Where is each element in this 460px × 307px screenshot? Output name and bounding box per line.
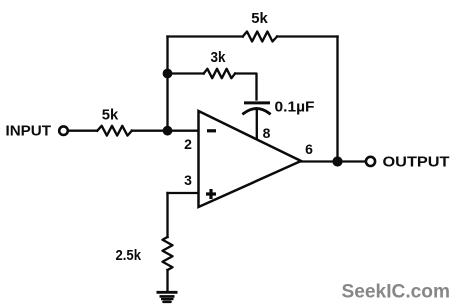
wire R1 to node A / pin2 [132, 130, 199, 132]
svg-text:5k: 5k [102, 108, 119, 124]
svg-text:5k: 5k [251, 11, 268, 27]
output terminal circle [366, 157, 375, 166]
node C junction dot (output) [332, 156, 342, 166]
capacitor C1 curved plate [244, 109, 270, 114]
wire pin3 horizontal [168, 192, 199, 194]
wire right feedback vertical [336, 37, 338, 162]
wire R4 to ground [166, 270, 168, 292]
resistor R1 5k (input) [97, 126, 132, 136]
wire input to R1 [69, 130, 97, 132]
svg-text:2.5k: 2.5k [116, 248, 142, 264]
node B junction dot (3k tap) [163, 69, 173, 79]
svg-text:SeekIC.com: SeekIC.com [342, 281, 451, 302]
capacitor C1 0.1uF top plate [246, 101, 269, 104]
svg-text:3k: 3k [211, 50, 227, 66]
resistor R2 5k (feedback) [243, 32, 277, 42]
wire left feedback vertical [166, 37, 168, 131]
wire pin3 down to R4 [166, 193, 168, 237]
svg-text:0.1µF: 0.1µF [275, 100, 315, 116]
node A junction dot [163, 126, 173, 136]
wire top left to R2 [168, 35, 243, 37]
svg-text:8: 8 [263, 125, 271, 141]
svg-text:3: 3 [184, 172, 192, 188]
wire opamp output [301, 160, 364, 162]
svg-text:6: 6 [305, 141, 313, 157]
wire R2 to right vertical [277, 35, 337, 37]
wire R3 to capacitor [235, 74, 256, 100]
ground [157, 292, 178, 302]
svg-text:OUTPUT: OUTPUT [383, 155, 450, 171]
input terminal circle [59, 126, 68, 135]
wire node A to R3 [168, 72, 204, 74]
op-amp plus sign [206, 189, 216, 199]
resistor R4 2.5k [163, 237, 173, 270]
wire capacitor to pin 8 [256, 111, 258, 139]
op-amp minus sign [207, 129, 216, 132]
svg-text:2: 2 [184, 136, 192, 152]
svg-text:INPUT: INPUT [6, 124, 52, 140]
op-amp U1 triangle [199, 111, 302, 207]
resistor R3 3k [204, 69, 235, 78]
